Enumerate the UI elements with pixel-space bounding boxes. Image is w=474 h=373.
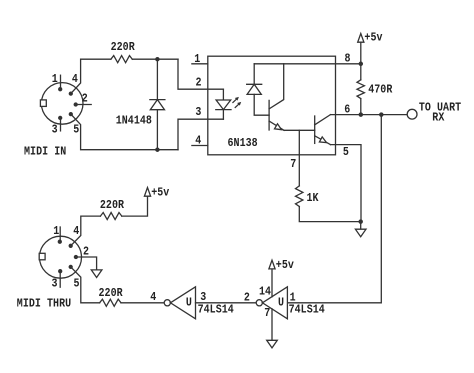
resistor R1 220R [111,56,132,63]
U1 photodiode cathode bar [247,83,262,85]
svg-text:3: 3 [52,124,58,137]
node A junction dot [156,58,159,61]
svg-text:U: U [186,297,192,310]
U1 input LED cathode wire [222,110,224,120]
inverter U2A triangle [170,287,195,319]
J1 pin 2 dot [74,103,77,106]
resistor R5 220R [100,299,121,306]
U2B pin 1 label [290,292,296,305]
svg-text:5: 5 [74,278,80,291]
J2 pin 4 label [73,225,79,238]
wire U1 pin7 to R3 [298,130,300,186]
U2A gate label U [186,297,192,310]
J1 pin 1 dot [59,88,62,91]
J1 pin 2 lead [76,104,92,106]
transistor Q2 collector [315,115,331,125]
Q1 emitter arrow [275,124,282,130]
svg-text:MIDI THRU: MIDI THRU [17,298,71,311]
diode D1 cathode bar [150,99,165,101]
transistor Q2 base bar [314,116,316,143]
label TO UART [419,102,462,115]
R1 value 220R [111,42,136,55]
J1 pin 3 dot [59,116,62,119]
U1 pin 3 label [195,107,201,120]
U1 input LED anode wire [222,89,224,100]
svg-text:7: 7 [290,158,296,171]
svg-text:1: 1 [290,292,296,305]
J2 pin 1 dot [58,240,61,243]
svg-text:U: U [278,297,284,310]
svg-text:2: 2 [196,77,202,90]
U2A pin 3 label [200,291,206,304]
U2B pin 7 label [264,307,270,320]
svg-text:4: 4 [73,225,79,238]
wire U1 pin6 / output rail [331,114,408,116]
R5 value 220R [99,287,124,300]
label RX [432,112,444,125]
U1 pin 4 label [195,135,201,148]
power +5v top symbol [358,34,364,43]
ground symbol G3 [267,340,278,348]
svg-text:6N138: 6N138 [228,137,258,150]
J2 pin 3 lead [59,272,61,287]
wire J1.4 to R1 [71,59,111,93]
svg-text:2: 2 [82,93,88,106]
U1 pin 1 stub [192,63,208,65]
svg-text:220R: 220R [100,199,125,212]
ground symbol G1 [355,229,366,237]
svg-text:5: 5 [343,146,349,159]
R2 value 470R [368,84,393,97]
node C junction dot [380,113,383,116]
svg-text:1: 1 [52,73,58,86]
wire J2.2 to ground [76,257,97,270]
node B junction dot [156,148,159,151]
power +5v U2B label [276,259,294,272]
J1 pin 3 lead [60,119,62,131]
svg-text:MIDI IN: MIDI IN [24,146,66,159]
U1 pin 6 label [344,104,350,117]
wire Q1 emitter to Q2 base [284,129,315,131]
svg-text:+5v: +5v [364,32,382,45]
J2 pin 3 dot [59,270,62,273]
svg-text:2: 2 [244,292,250,305]
connector J1 MIDI IN body [41,83,83,125]
wire U1 pin5 to gnd node [331,145,362,222]
J1 pin 1 lead [60,75,62,88]
wire R1 to node A [132,58,178,60]
wire R5 to U2A output [121,302,164,304]
inverter U2B triangle [262,287,287,319]
J2 pin 2 label [83,246,89,259]
J1 pin 2 label [82,93,88,106]
connector J2 MIDI THRU body [40,236,82,278]
svg-text:74LS14: 74LS14 [198,304,235,317]
connector J1 key notch [40,100,46,107]
U2B pin 2 label [244,292,250,305]
U1 value 6N138 [228,137,258,150]
U2B pin 14 label [259,286,271,299]
D1 value 1N4148 [116,115,152,128]
svg-text:470R: 470R [368,84,393,97]
resistor R4 220R [100,213,121,220]
svg-text:220R: 220R [111,42,136,55]
svg-text:220R: 220R [99,287,124,300]
wire J2.5 to R5 [71,267,100,303]
power +5v thru label [151,187,169,200]
U1 pin 4 stub [192,145,208,147]
node D junction dot [359,220,362,223]
terminal TO UART RX [407,109,417,119]
svg-text:1: 1 [53,225,59,238]
svg-text:RX: RX [432,112,444,125]
wire J2.4 to R4 [71,216,101,246]
J1 pin 3 label [52,124,58,137]
power +5v U2B symbol [269,260,275,269]
wire R3 to gnd node [299,207,360,222]
J1 pin 4 dot [69,92,72,95]
U1 pin 5 label [343,146,349,159]
node pin6 junction dot [359,113,362,116]
connector J2 key notch [39,253,45,259]
U1 photodiode cathode wire [253,64,255,85]
J2 pin 1 lead [59,227,61,241]
resistor R2 470R [357,80,364,99]
svg-text:3: 3 [52,278,58,291]
power +5v thru symbol [144,188,150,197]
U1 light arrow 2 [235,102,241,108]
label MIDI IN [24,146,66,159]
J2 pin 5 dot [69,265,72,268]
svg-text:1K: 1K [307,192,319,205]
U1 photodiode triangle [247,84,261,94]
U1 input LED triangle [216,100,231,110]
U2A pin 4 label [150,291,156,304]
U1 pin 2 label [196,77,202,90]
wire node B to U1 pin3 [178,119,223,150]
U2B value 74LS14 [289,304,326,317]
optocoupler U1 6N138 body [208,56,336,155]
J1 pin 4 label [72,73,78,86]
U2B gate label U [278,297,284,310]
inverter U2B bubble [256,300,262,306]
J2 pin 1 label [53,225,59,238]
U1 pin 7 label [290,158,296,171]
U2A value 74LS14 [198,304,235,317]
ground symbol G2 [91,270,102,278]
wire J1.5 to node B [71,114,178,150]
wire node C down to inverters [287,115,381,303]
J2 pin 3 label [52,278,58,291]
wire node D to ground [360,222,362,230]
J2 pin 5 label [74,278,80,291]
U2B pin 14 wire [271,269,273,297]
wire R2 to pin6 node [360,99,362,115]
wire R4 to +5v [122,196,148,216]
svg-text:3: 3 [195,107,201,120]
transistor Q1 collector [269,64,284,109]
U1 input LED cathode bar [216,109,231,111]
J1 pin 5 label [73,124,79,137]
J1 pin 1 label [52,73,58,86]
inverter U2A bubble [164,300,170,306]
svg-text:4: 4 [72,73,78,86]
U1 internal top rail / pin 8 wire [254,63,361,65]
wire +5v to pin8 node [360,42,362,80]
svg-text:1: 1 [194,53,200,66]
J2 pin 2 dot [74,256,77,259]
wire U2A.3 to U2B.2 [196,302,257,304]
svg-text:4: 4 [195,135,201,148]
svg-text:4: 4 [150,291,156,304]
U1 pin 1 label [194,53,200,66]
power +5v top label [364,32,382,45]
U1 light arrow 1 [233,97,239,103]
svg-text:1N4148: 1N4148 [116,115,152,128]
node pin8 junction dot [359,62,362,65]
svg-text:7: 7 [264,307,270,320]
U2B pin 7 wire [271,309,273,340]
Q2 emitter arrow [319,137,326,143]
wire node A to U1 pin2 [178,59,223,89]
J1 pin 5 dot [69,113,72,116]
svg-text:14: 14 [259,286,271,299]
transistor Q2 emitter [315,136,331,145]
resistor R3 1K [296,186,303,207]
U1 pin 8 label [345,53,351,66]
diode D1 lead top [156,59,158,99]
R4 value 220R [100,199,125,212]
svg-text:+5v: +5v [151,187,169,200]
R3 value 1K [307,192,319,205]
diode D1 triangle [150,100,164,110]
svg-text:5: 5 [73,124,79,137]
svg-text:74LS14: 74LS14 [289,304,326,317]
svg-text:+5v: +5v [276,259,294,272]
transistor Q1 base bar [268,100,270,130]
label MIDI THRU [17,298,71,311]
J2 pin 4 dot [69,244,72,247]
U1 photodiode anode wire [254,94,269,115]
transistor Q1 emitter [269,121,284,130]
diode D1 lead bottom [156,110,158,150]
